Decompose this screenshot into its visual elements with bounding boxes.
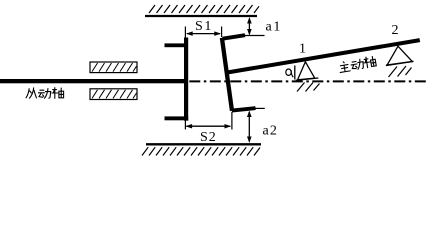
svg-text:a2: a2 (263, 124, 279, 139)
glyph 轴 (52, 87, 64, 99)
angle alpha glyph (286, 69, 294, 77)
bottom wall hatching (142, 147, 260, 155)
svg-text:S1: S1 (195, 19, 213, 34)
top wall line (145, 15, 257, 17)
S1 extension line right (221, 27, 223, 38)
centerline (189, 80, 426, 82)
disk top stub (223, 35, 246, 39)
S1 extension line left (184, 27, 186, 41)
S1 dimension line with arrows (186, 31, 221, 36)
driving shaft label 主动轴 (rotated along shaft) (338, 55, 376, 72)
disk bottom stub (232, 108, 256, 111)
support 2 hatching (389, 66, 412, 77)
glyph 从 (26, 87, 37, 98)
support 1 base line (296, 78, 319, 80)
glyph 动 (38, 88, 51, 98)
driving shaft (227, 40, 420, 73)
a2 reference line (250, 107, 265, 109)
bearing block upper (hatched) (90, 62, 137, 73)
top wall hatching (149, 5, 259, 13)
fork bottom stub (165, 116, 189, 120)
fork top stub (165, 43, 185, 47)
S2 extension line right (231, 112, 233, 130)
bearing block lower (hatched) (90, 89, 137, 100)
glyph 轴 (363, 55, 377, 68)
S2 extension line left (184, 121, 186, 130)
support 2 triangle (387, 46, 412, 65)
coupling disk (tilted) (222, 38, 232, 111)
support 1 triangle (298, 62, 315, 80)
svg-text:1: 1 (299, 42, 306, 57)
glyph 动 (350, 58, 364, 70)
driven shaft (0, 79, 185, 83)
driven shaft label 从动轴 (26, 87, 64, 99)
a2 dimension arrow (247, 111, 252, 144)
svg-text:2: 2 (392, 23, 399, 38)
S2 dimension line with arrows (185, 124, 231, 129)
svg-text:a1: a1 (266, 20, 282, 35)
support 2 base line (386, 61, 414, 65)
a1 reference line (242, 35, 265, 37)
bottom wall line (146, 143, 261, 145)
fork vertical bar (184, 38, 188, 121)
a1 dimension arrow (247, 17, 252, 36)
svg-text:S2: S2 (200, 130, 217, 145)
angle alpha tick line (294, 66, 296, 80)
glyph 主 (338, 61, 351, 73)
support 1 hatching (297, 83, 320, 92)
